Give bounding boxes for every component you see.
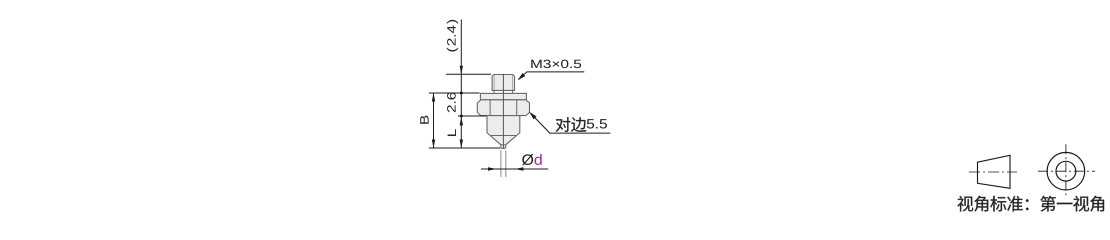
- extension line stud top: [446, 73, 491, 75]
- arrow L bottom: [460, 140, 463, 149]
- dot hex bottom junction: [460, 115, 463, 118]
- extension line flange top: [429, 92, 480, 94]
- projection inner circle: [1056, 161, 1076, 181]
- caption first angle projection: [957, 196, 973, 212]
- extension line tip bottom: [429, 147, 501, 149]
- cylinder body with cone tip: [487, 116, 520, 149]
- arrow L top: [460, 117, 463, 126]
- label (2.4): [447, 47, 458, 51]
- arrow B bottom: [432, 140, 435, 149]
- label 2.6: [447, 105, 455, 112]
- dot flange top junction: [460, 92, 463, 95]
- centerline: [502, 74, 504, 148]
- pin top line: [501, 144, 506, 146]
- arrow B top: [432, 93, 435, 102]
- dimension line Od: [481, 168, 548, 170]
- threaded stud M3: [492, 75, 514, 91]
- circle centerline horizontal: [1038, 170, 1095, 172]
- extension line hex bottom: [458, 115, 486, 117]
- washer flange: [480, 93, 526, 99]
- leader M3x0.5: [519, 72, 585, 80]
- arrow (2.4): [460, 66, 463, 75]
- hex facet line right: [516, 100, 518, 115]
- dimension line B: [433, 93, 435, 148]
- projection outer circle: [1047, 152, 1085, 190]
- centerline (over fill): [502, 74, 504, 148]
- dimension line stack for (2.4) 2.6 L: [460, 20, 462, 149]
- arrow Od right: [515, 167, 524, 170]
- pin extension line left: [500, 150, 502, 177]
- neck below thread: [494, 90, 513, 93]
- hex across flats 5.5: [477, 100, 529, 116]
- label M3x0.5: [531, 60, 541, 68]
- projection symbol frustum: [978, 155, 1011, 188]
- leader across flats 5.5: [531, 114, 610, 133]
- cone base line: [491, 135, 515, 137]
- arrow Od left: [488, 167, 497, 170]
- pin extension line right: [505, 150, 507, 177]
- leader arrow across flats: [529, 112, 536, 120]
- hex facet line left: [489, 100, 491, 115]
- leader arrow M3: [518, 73, 526, 80]
- frustum centerline: [969, 171, 1017, 173]
- thread minor line left: [493, 75, 495, 90]
- circle centerline vertical: [1065, 144, 1067, 198]
- thread minor line right: [512, 75, 514, 90]
- label across flats 5.5: [556, 117, 571, 132]
- label Od: [522, 154, 533, 165]
- label L: [448, 129, 456, 136]
- label B: [420, 116, 428, 124]
